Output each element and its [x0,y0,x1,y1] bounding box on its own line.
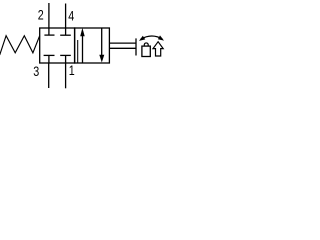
svg-text:1: 1 [69,63,75,79]
flow arrow down shaft [101,28,103,56]
lever line top [109,42,136,44]
lever end bar [135,38,137,55]
toggle arc left arrowhead [139,36,145,41]
port 1 line [65,63,67,88]
blocked port T top-left (port 2) [44,28,54,35]
flow arrow down head [99,55,104,63]
port 3 line [48,63,50,88]
toggle arc right arrowhead [158,35,164,40]
flow arrow up head [80,28,85,36]
port 2 line [48,3,50,28]
padlock body [142,46,150,56]
svg-text:3: 3 [33,64,39,80]
toggle arc [141,36,163,39]
valve body left square (position b, all ports blocked) [40,28,75,63]
valve body right square (position a) [75,28,110,63]
spring [0,36,40,55]
toggle arrow (hollow up arrow) [153,42,163,56]
svg-text:4: 4 [68,8,74,24]
padlock shackle [144,43,148,46]
blocked port T bottom-left (port 3) [44,55,55,63]
svg-text:2: 2 [38,7,44,23]
blocked port T top-right (port 4) [60,28,71,35]
blocked port T bottom-right (port 1) [60,55,71,63]
flow path line (companion segment) [77,40,79,63]
lever line bottom [109,47,136,49]
port 4 line [65,4,67,29]
flow arrow up shaft [82,35,84,64]
